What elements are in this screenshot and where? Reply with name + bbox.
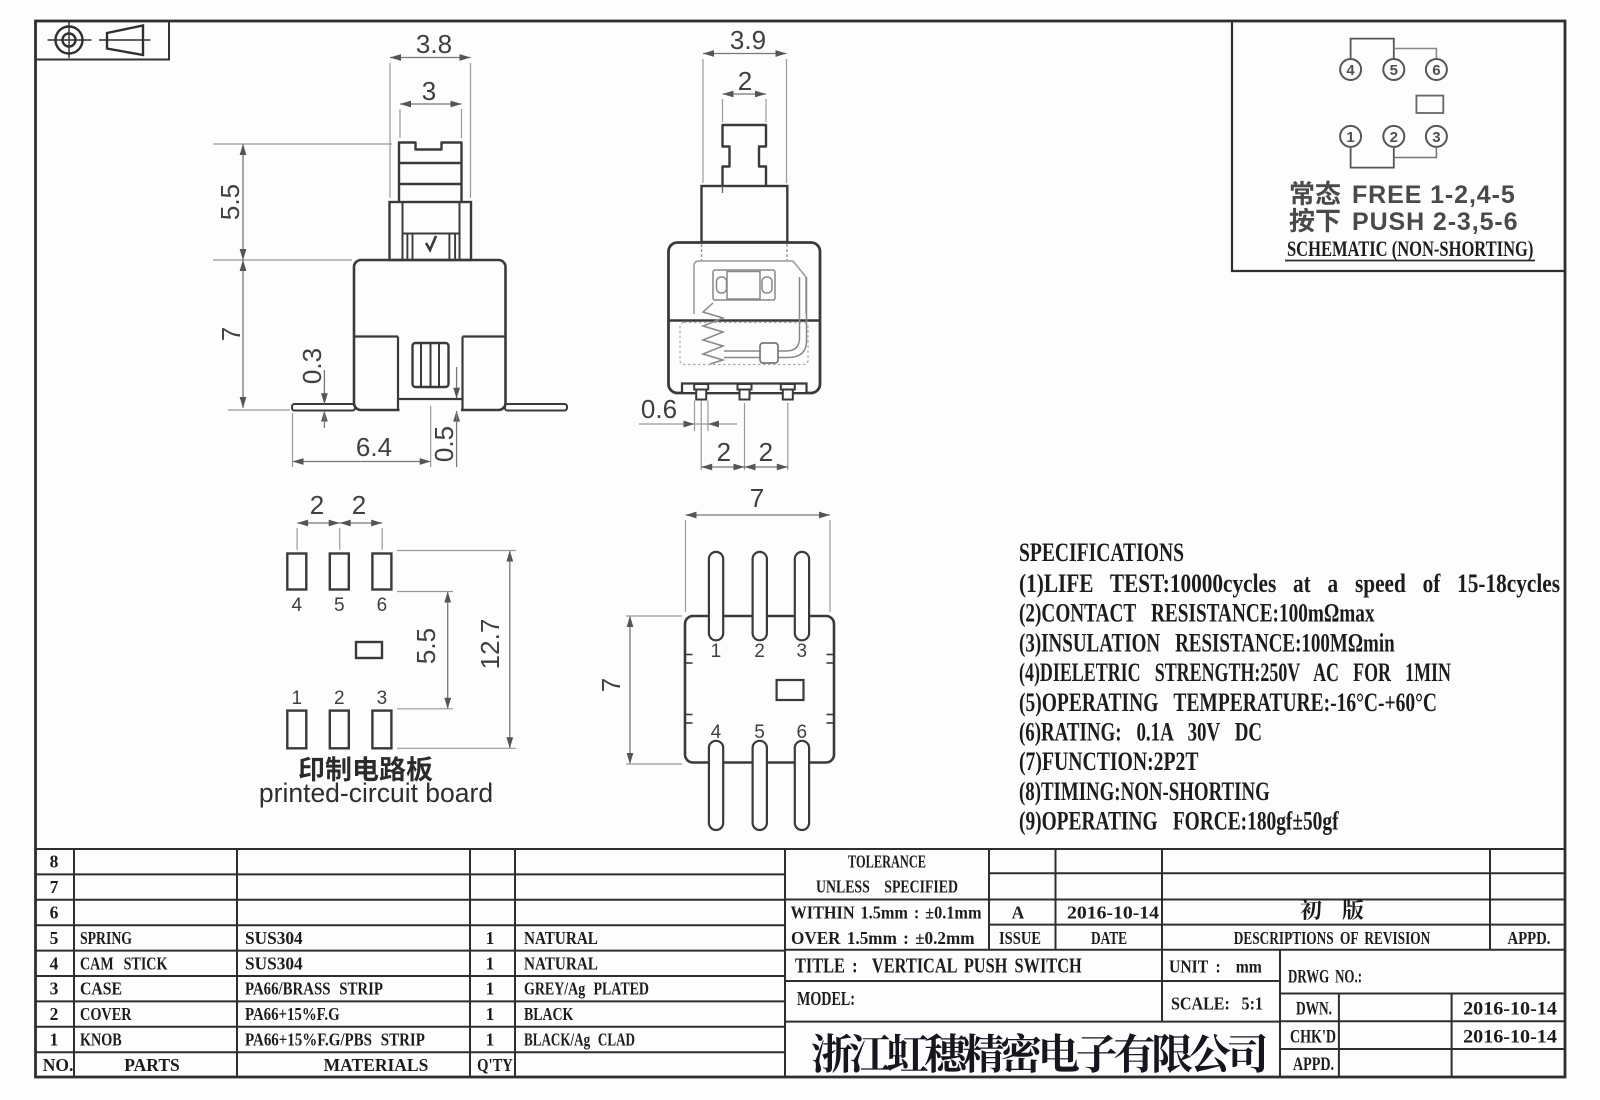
front center slot <box>413 343 449 387</box>
svg-text:NO.: NO. <box>43 1055 74 1075</box>
svg-text:BLACK: BLACK <box>524 1006 574 1025</box>
svg-text:3.8: 3.8 <box>416 29 452 59</box>
front knob <box>399 143 462 203</box>
svg-text:2: 2 <box>1390 129 1398 146</box>
svg-text:UNIT : mm: UNIT : mm <box>1169 957 1262 977</box>
svg-text:6: 6 <box>1432 62 1440 79</box>
dimension 0.3 <box>297 348 328 428</box>
bottom view cam hole <box>777 680 804 700</box>
svg-text:5.5: 5.5 <box>411 628 441 664</box>
svg-text:5.5: 5.5 <box>215 184 245 220</box>
svg-text:PUSH 2-3,5-6: PUSH 2-3,5-6 <box>1352 208 1518 236</box>
side body <box>669 243 821 394</box>
svg-text:2: 2 <box>759 437 773 467</box>
dimension 5.5 pcb <box>397 592 453 709</box>
front body case <box>354 260 506 410</box>
svg-text:SUS304: SUS304 <box>245 953 303 973</box>
svg-text:3: 3 <box>797 641 808 662</box>
side pin at x=701.2 <box>694 384 708 390</box>
svg-text:DATE: DATE <box>1091 929 1127 948</box>
svg-text:(3)INSULATION RESISTANCE:100MΩ: (3)INSULATION RESISTANCE:100MΩmin <box>1019 629 1395 658</box>
svg-text:0.6: 0.6 <box>641 394 677 424</box>
svg-text:NATURAL: NATURAL <box>524 953 598 973</box>
front right leg <box>505 404 567 411</box>
svg-text:APPD.: APPD. <box>1508 930 1551 948</box>
svg-text:UNLESS SPECIFIED: UNLESS SPECIFIED <box>816 878 958 897</box>
svg-text:1: 1 <box>486 953 495 973</box>
svg-text:2016-10-14: 2016-10-14 <box>1067 903 1159 923</box>
svg-text:2016-10-14: 2016-10-14 <box>1463 999 1557 1019</box>
svg-text:TOLERANCE: TOLERANCE <box>848 854 926 872</box>
svg-text:7: 7 <box>596 678 626 692</box>
projection symbol box <box>36 21 170 60</box>
side plunger <box>723 125 767 186</box>
svg-text:(4)DIELETRIC STRENGTH:250V AC: (4)DIELETRIC STRENGTH:250V AC FOR 1MIN <box>1019 658 1451 687</box>
dimension 7 left <box>596 616 682 764</box>
svg-text:1: 1 <box>486 1004 495 1024</box>
svg-text:SCALE: 5:1: SCALE: 5:1 <box>1171 994 1263 1014</box>
schematic terminal 1 <box>1340 126 1361 147</box>
svg-text:7: 7 <box>50 877 59 897</box>
svg-text:6: 6 <box>377 595 388 616</box>
svg-text:4: 4 <box>1346 62 1355 79</box>
front left leg <box>292 404 355 411</box>
svg-text:0.5: 0.5 <box>429 426 459 462</box>
dimension 3 <box>400 76 462 138</box>
schematic text push <box>1290 208 1340 233</box>
dimension 7 <box>216 260 290 410</box>
projection symbol circle <box>48 22 92 59</box>
svg-text:8: 8 <box>50 852 59 872</box>
dimension 3.8 <box>390 29 471 198</box>
bottom view pin 2 <box>753 552 767 640</box>
schematic wire to 3 <box>1394 148 1437 158</box>
svg-text:SPECIFICATIONS: SPECIFICATIONS <box>1019 537 1184 566</box>
svg-text:MODEL:: MODEL: <box>797 988 855 1010</box>
pcb pad 4 <box>287 554 306 590</box>
svg-text:1: 1 <box>486 1030 495 1050</box>
svg-text:3: 3 <box>422 76 436 106</box>
company name <box>812 1033 1266 1073</box>
svg-text:2: 2 <box>738 66 752 96</box>
svg-text:7: 7 <box>216 327 246 341</box>
side pin at x=787.8 <box>781 384 795 390</box>
dimension 3.9 <box>703 25 787 183</box>
svg-text:GREY/Ag PLATED: GREY/Ag PLATED <box>524 980 649 999</box>
schematic box <box>1232 21 1565 271</box>
svg-text:1: 1 <box>292 688 303 709</box>
side inner cover outline <box>694 261 806 314</box>
svg-text:0.3: 0.3 <box>297 348 327 384</box>
svg-text:MATERIALS: MATERIALS <box>324 1055 429 1075</box>
svg-text:2: 2 <box>352 490 366 520</box>
schematic wire to 6 <box>1394 49 1437 59</box>
svg-text:SCHEMATIC (NON-SHORTING): SCHEMATIC (NON-SHORTING) <box>1287 238 1533 262</box>
pcb pad 5 <box>330 554 349 590</box>
projection symbol cone <box>99 26 151 56</box>
svg-text:DRWG NO.:: DRWG NO.: <box>1288 966 1362 987</box>
svg-text:1: 1 <box>50 1030 59 1050</box>
dimension 5.5 <box>213 144 392 260</box>
svg-text:(6)RATING: 0.1A 30V DC: (6)RATING: 0.1A 30V DC <box>1019 718 1262 747</box>
svg-text:(1)LIFE TEST:10000cycles at a: (1)LIFE TEST:10000cycles at a speed of 1… <box>1019 570 1560 598</box>
svg-text:5: 5 <box>334 595 345 616</box>
schematic terminal 5 <box>1383 59 1404 80</box>
svg-text:PA66/BRASS STRIP: PA66/BRASS STRIP <box>245 980 383 999</box>
svg-text:(5)OPERATING TEMPERATURE:-16°C: (5)OPERATING TEMPERATURE:-16°C-+60°C <box>1019 688 1437 716</box>
svg-text:2: 2 <box>310 490 324 520</box>
svg-text:2: 2 <box>50 1004 59 1024</box>
dimension 0.5 <box>429 367 460 467</box>
svg-text:1: 1 <box>486 979 495 999</box>
dimension 2 plunger <box>723 66 767 122</box>
svg-text:2: 2 <box>334 688 345 709</box>
svg-text:3: 3 <box>50 979 59 999</box>
side lower inner outline <box>680 323 808 365</box>
svg-text:NATURAL: NATURAL <box>524 928 598 948</box>
pcb pad 6 <box>372 554 391 590</box>
svg-text:12.7: 12.7 <box>475 619 505 670</box>
schematic terminal 3 <box>1426 126 1447 147</box>
schematic cam <box>1416 96 1443 113</box>
svg-text:CASE: CASE <box>80 979 122 999</box>
svg-text:6.4: 6.4 <box>356 432 392 462</box>
svg-text:3: 3 <box>1432 129 1440 146</box>
schematic text free <box>1291 181 1341 206</box>
svg-text:BLACK/Ag CLAD: BLACK/Ag CLAD <box>524 1031 635 1050</box>
pcb label chinese <box>299 756 432 782</box>
svg-text:1: 1 <box>711 641 722 662</box>
dimension 12.7 pcb <box>397 551 516 749</box>
svg-text:printed-circuit board: printed-circuit board <box>259 778 493 808</box>
dimension 2 2 pins <box>701 403 788 470</box>
svg-text:PARTS: PARTS <box>124 1055 179 1075</box>
svg-text:(7)FUNCTION:2P2T: (7)FUNCTION:2P2T <box>1019 747 1199 776</box>
revision row <box>1300 899 1363 920</box>
svg-text:(2)CONTACT RESISTANCE:100mΩmax: (2)CONTACT RESISTANCE:100mΩmax <box>1019 599 1375 627</box>
svg-text:SUS304: SUS304 <box>245 928 303 948</box>
svg-text:(9)OPERATING FORCE:180gf±50gf: (9)OPERATING FORCE:180gf±50gf <box>1019 807 1339 835</box>
dimension 0.6 <box>639 394 737 431</box>
svg-text:(8)TIMING:NON-SHORTING: (8)TIMING:NON-SHORTING <box>1019 777 1270 806</box>
title block grid <box>36 849 1566 1078</box>
svg-text:3.9: 3.9 <box>730 25 766 55</box>
schematic terminal 6 <box>1426 59 1447 80</box>
side body bottom profile <box>683 381 806 392</box>
svg-text:APPD.: APPD. <box>1293 1053 1334 1075</box>
bottom edge notches <box>685 655 834 724</box>
svg-text:2: 2 <box>754 641 765 662</box>
side cam stick block <box>760 343 778 363</box>
schematic terminal 2 <box>1383 126 1404 147</box>
svg-text:5: 5 <box>50 928 59 948</box>
bottom view pin 3 <box>795 552 809 640</box>
svg-text:5: 5 <box>1390 62 1398 79</box>
svg-text:OVER 1.5mm : ±0.2mm: OVER 1.5mm : ±0.2mm <box>791 929 975 948</box>
side contact lever <box>724 277 807 358</box>
svg-text:A: A <box>1012 903 1025 923</box>
bottom body <box>685 616 834 763</box>
side shaft <box>702 186 788 242</box>
svg-text:2016-10-14: 2016-10-14 <box>1463 1027 1557 1047</box>
svg-text:KNOB: KNOB <box>80 1031 122 1050</box>
dimension 2 2 pcb <box>297 490 382 550</box>
svg-text:6: 6 <box>50 903 59 923</box>
side spring <box>703 303 723 364</box>
svg-text:FREE 1-2,4-5: FREE 1-2,4-5 <box>1352 181 1516 209</box>
svg-text:3: 3 <box>377 688 388 709</box>
side contact assembly <box>713 270 775 300</box>
schematic wire 1-2 <box>1351 148 1394 168</box>
schematic terminal 4 <box>1340 59 1361 80</box>
pcb center hole <box>356 642 382 658</box>
svg-text:2: 2 <box>717 437 731 467</box>
front knob base <box>390 202 472 260</box>
svg-text:TITLE : VERTICAL PUSH SWITCH: TITLE : VERTICAL PUSH SWITCH <box>795 955 1082 978</box>
side pin at x=744.5 <box>738 384 752 390</box>
svg-text:WITHIN 1.5mm : ±0.1mm: WITHIN 1.5mm : ±0.1mm <box>791 903 982 923</box>
svg-text:ISSUE: ISSUE <box>999 930 1041 948</box>
svg-text:SPRING: SPRING <box>80 929 132 948</box>
svg-text:COVER: COVER <box>80 1006 132 1025</box>
svg-text:7: 7 <box>750 483 764 513</box>
svg-text:4: 4 <box>50 953 59 973</box>
svg-text:CAM STICK: CAM STICK <box>80 955 168 974</box>
svg-text:CHK'D: CHK'D <box>1290 1025 1336 1047</box>
svg-text:1: 1 <box>1346 129 1354 146</box>
svg-text:1: 1 <box>486 928 495 948</box>
dimension 7 top <box>686 483 831 612</box>
svg-text:PA66+15%F.G/PBS STRIP: PA66+15%F.G/PBS STRIP <box>245 1029 425 1049</box>
schematic wire 4-5 <box>1351 39 1394 58</box>
bottom view pin 1 <box>709 552 723 640</box>
svg-text:4: 4 <box>292 595 303 616</box>
svg-text:DESCRIPTIONS OF REVISION: DESCRIPTIONS OF REVISION <box>1234 929 1431 948</box>
svg-text:Q'TY: Q'TY <box>477 1057 513 1075</box>
dimension 6.4 <box>293 406 431 467</box>
svg-text:PA66+15%F.G: PA66+15%F.G <box>245 1005 340 1024</box>
svg-text:DWN.: DWN. <box>1296 997 1332 1019</box>
